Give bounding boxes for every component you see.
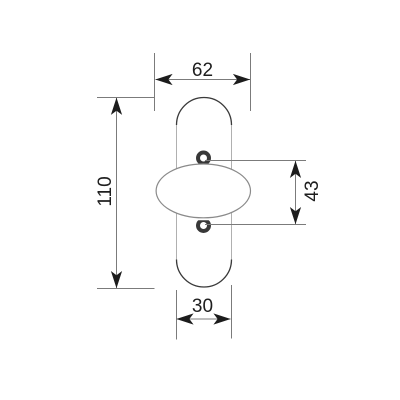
dim 62 extension line left <box>154 53 156 111</box>
dim 110 arrowhead up <box>111 98 122 115</box>
screw hole top <box>198 153 209 164</box>
dim 43 extension line bottom <box>205 224 306 226</box>
svg-text:30: 30 <box>192 296 213 317</box>
dim 43 dimension line <box>295 161 297 224</box>
dim 30 dimension line <box>177 318 231 320</box>
dim 62 arrowhead right <box>233 74 250 85</box>
dim 62 arrowhead left <box>155 74 172 85</box>
svg-text:43: 43 <box>302 180 323 201</box>
dim 43 arrowhead up <box>290 161 301 178</box>
dim 30 extension line right <box>231 285 233 339</box>
dim 110 extension line top <box>97 97 155 99</box>
dim 30 arrowhead right <box>213 313 230 324</box>
dim 110 arrowhead down <box>111 271 122 288</box>
backplate (capsule escutcheon plate outline) <box>177 98 232 288</box>
dim 110 dimension line <box>116 98 118 288</box>
oval knob rose (ellipse over plate) <box>156 164 250 218</box>
dim 30 arrowhead left <box>176 313 193 324</box>
dim 30 extension line left <box>176 290 178 340</box>
screw hole bottom <box>198 220 209 231</box>
dim 62 extension line right <box>250 53 252 111</box>
dim 62 dimension line <box>156 79 251 81</box>
svg-text:62: 62 <box>192 60 213 81</box>
svg-text:110: 110 <box>95 176 116 206</box>
dim 43 arrowhead down <box>290 207 301 224</box>
dim 110 extension line bottom <box>97 288 155 290</box>
dim 43 extension line top <box>205 160 306 162</box>
